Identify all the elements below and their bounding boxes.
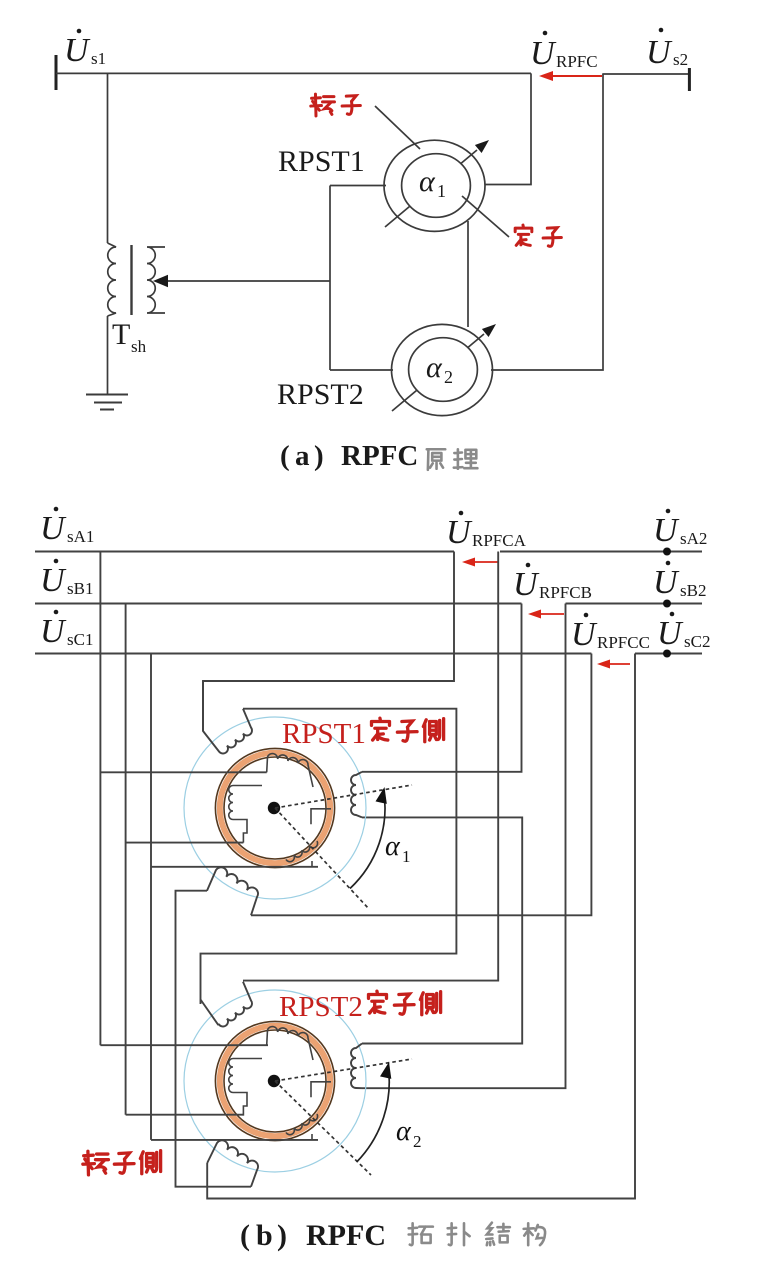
RPST2 angle dashed axis rotor — [275, 1059, 412, 1081]
svg-text:RPFC: RPFC — [556, 52, 598, 71]
label U_RPFCC — [571, 613, 650, 653]
terminal bar left (bus s1) — [55, 55, 58, 90]
wire RPST1 to RPST2 — [467, 221, 469, 327]
label Tsh — [112, 318, 147, 356]
wire transformer to ground — [107, 316, 109, 395]
arrow U_RPFC (red, pointing left) — [539, 71, 602, 81]
RPST2 stator coil A (top-left) — [201, 982, 252, 1027]
RPST1 rotor winding top — [267, 754, 313, 787]
svg-text:sC2: sC2 — [684, 632, 710, 651]
svg-text:(b)RPFC: (b)RPFC — [240, 1219, 386, 1252]
arrow U_RPFCA (red) — [462, 558, 499, 567]
wire RPST1 left — [330, 185, 386, 187]
wire RPST1 coil3 left lead to RPST2 coil3 — [176, 891, 252, 1187]
svg-text:sB1: sB1 — [67, 579, 93, 598]
svg-text:sA1: sA1 — [67, 527, 94, 546]
label UsB1 — [40, 559, 93, 599]
svg-text:RPFCB: RPFCB — [539, 583, 592, 602]
svg-text:sB2: sB2 — [680, 581, 706, 600]
wire phase C drop left — [150, 654, 152, 1140]
node Us1 label — [64, 29, 106, 69]
wire phase B drop left — [125, 604, 127, 1115]
wire bus1 down to transformer — [107, 73, 109, 243]
svg-text:U: U — [40, 562, 67, 599]
label UsA2 — [653, 509, 707, 549]
svg-text:2: 2 — [413, 1132, 422, 1151]
wire bus A2 drop to RPST2 coil1 — [243, 552, 498, 981]
terminal bar right (bus s2) — [688, 68, 691, 91]
svg-text:U: U — [513, 566, 540, 603]
RPST1 stator coil C (bottom-left) — [207, 867, 258, 915]
svg-text:RPFCA: RPFCA — [472, 531, 527, 550]
transformer Tsh core — [130, 245, 132, 315]
RPST1 rotor ring — [215, 748, 334, 867]
svg-text:U: U — [40, 510, 67, 547]
label rotor side (red) — [83, 1151, 109, 1175]
svg-text:RPST1: RPST1 — [282, 718, 366, 750]
svg-text:α: α — [419, 165, 436, 198]
wire bus A2 — [500, 550, 702, 552]
RPST2 rotor winding bottom — [311, 1082, 331, 1098]
svg-text:U: U — [40, 613, 67, 650]
label U_RPFCA — [446, 511, 527, 551]
wire phase A drop left — [99, 552, 101, 1046]
label UsB2 — [653, 561, 706, 601]
svg-text:(a)RPFC: (a)RPFC — [280, 440, 418, 472]
RPST1 angle arc alpha1 — [350, 787, 387, 889]
svg-text:sh: sh — [131, 337, 147, 356]
wire rotor C feed RPST2 — [151, 1139, 318, 1141]
svg-text:α: α — [396, 1116, 412, 1147]
wire RPST1 right to bus1 — [485, 73, 531, 184]
junction dot B2 — [663, 600, 671, 608]
wire rotor A feed RPST1 — [100, 771, 266, 773]
RPST1 angle dashed axis stator — [275, 808, 369, 909]
wire bus C2 drop to RPST2 coil3 — [207, 654, 635, 1199]
svg-text:U: U — [657, 615, 684, 652]
wire bus1 top — [56, 72, 531, 74]
wire transformer tap arrow — [153, 275, 330, 287]
label UsC1 — [40, 610, 93, 650]
wire rotor B feed RPST1 — [126, 842, 244, 844]
wire bus A1 — [35, 550, 454, 552]
wire rotor C feed RPST1 — [151, 866, 318, 868]
op RPST1 circle symbol — [384, 140, 489, 231]
wire RPST1 coil1 to RPST2 coil1 — [201, 709, 457, 1004]
svg-text:α: α — [426, 351, 443, 384]
RPST1 shaft dot — [268, 802, 280, 814]
svg-text:U: U — [646, 34, 673, 71]
svg-text:2: 2 — [444, 367, 453, 387]
transformer Tsh primary winding — [108, 243, 117, 316]
wire bus2 top right — [602, 73, 689, 75]
svg-text:sA2: sA2 — [680, 529, 707, 548]
label UsC2 — [657, 612, 710, 652]
pointer line rotor — [375, 106, 420, 149]
wire bus C1 — [35, 652, 591, 654]
RPST1 stator coil B (right) — [351, 772, 362, 818]
wire bus B2 — [566, 602, 703, 604]
node U_RPFC label — [530, 31, 598, 72]
RPST2 rotor winding top — [267, 1027, 313, 1060]
op RPST2 circle symbol — [392, 324, 497, 416]
junction dot A2 — [663, 548, 671, 556]
RPST2 angle dashed axis stator — [275, 1081, 371, 1175]
svg-text:U: U — [64, 32, 91, 69]
arrow U_RPFCB (red) — [528, 610, 564, 619]
svg-text:1: 1 — [402, 847, 411, 866]
svg-text:s2: s2 — [673, 50, 688, 69]
svg-text:T: T — [112, 318, 130, 351]
RPST2 stator boundary circle — [184, 990, 366, 1172]
RPST1 stator boundary circle — [184, 717, 366, 899]
label UsA1 — [40, 507, 94, 547]
label stator (red) — [515, 225, 532, 245]
svg-text:sC1: sC1 — [67, 630, 93, 649]
wire bus B1 — [35, 602, 522, 604]
svg-text:α: α — [385, 831, 401, 862]
arrow U_RPFCC (red) — [597, 660, 630, 669]
RPST1 rotor winding left — [229, 786, 262, 843]
wire rotor A feed RPST2 — [100, 1044, 268, 1046]
RPST2 rotor winding left — [229, 1059, 262, 1116]
pointer line stator — [462, 196, 509, 237]
ground — [86, 395, 128, 410]
svg-text:U: U — [446, 514, 473, 551]
RPST1 rotor winding bottom — [311, 809, 331, 825]
svg-text:RPFCC: RPFCC — [597, 633, 650, 652]
wire RPST2 left — [330, 369, 393, 371]
wire RPST2 right to bus2 — [491, 74, 603, 370]
RPST1 angle dashed axis rotor — [275, 785, 412, 808]
wire RPST1 coil2 to RPST2 coil2 — [362, 817, 522, 1043]
junction dot C2 — [663, 650, 671, 658]
label U_RPFCB — [513, 563, 592, 603]
svg-text:RPST2: RPST2 — [279, 991, 363, 1023]
svg-text:1: 1 — [437, 181, 446, 201]
svg-text:U: U — [571, 616, 598, 653]
wire bus C1 end drop to RPST1 coil3 — [251, 654, 591, 916]
svg-text:RPST1: RPST1 — [278, 145, 365, 178]
node Us2 label — [646, 28, 688, 71]
label rotor (red) — [311, 94, 335, 116]
RPST2 angle arc alpha2 — [357, 1062, 392, 1162]
svg-text:s1: s1 — [91, 49, 106, 68]
wire bus B2 drop to RPST2 coil2 — [362, 604, 566, 1089]
wire bus A1 end drop — [203, 552, 454, 732]
RPST2 stator coil C (bottom-left) — [207, 1140, 258, 1186]
RPST2 shaft dot — [268, 1075, 280, 1087]
transformer Tsh secondary winding — [147, 247, 165, 313]
wire rotor B feed RPST2 — [126, 1114, 244, 1116]
wire bus C2 — [635, 652, 702, 654]
RPST1 stator coil A (top-left) — [203, 681, 252, 754]
RPST2 rotor ring — [215, 1021, 334, 1140]
svg-text:RPST2: RPST2 — [277, 378, 364, 411]
svg-text:U: U — [653, 564, 680, 601]
svg-text:U: U — [530, 35, 557, 72]
RPST2 stator coil B (right) — [351, 1044, 362, 1089]
wire left branch vertical — [329, 186, 331, 371]
svg-text:U: U — [653, 512, 680, 549]
wire bus B1 end drop to RPST1 coil2 — [362, 604, 522, 772]
